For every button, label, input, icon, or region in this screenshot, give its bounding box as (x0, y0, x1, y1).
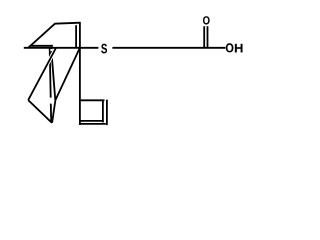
bond baseline horizontal left of S (24, 47, 99, 49)
bond vertical A lower segment (50, 104, 52, 123)
bond square inner bottom (80, 120, 103, 122)
bond square outer bottom (79, 123, 106, 125)
atom S (101, 44, 107, 54)
bond cage top edge (55, 23, 81, 24)
bond D junction to mid vertex (55, 48, 80, 100)
bond cage left slant (28, 24, 55, 48)
bond C mid vertex to bottom point (52, 100, 55, 123)
halo nick at apex junction (50, 49, 52, 51)
bond left arm to V corner (28, 49, 56, 101)
bond S to carboxyl carbon (112, 47, 225, 49)
atom H of hydroxyl (235, 44, 243, 53)
bond inner double line of bottom edge (30, 45, 53, 47)
bond square top edge (80, 99, 105, 101)
bond cage long right vertical (79, 22, 81, 125)
atom O of hydroxyl (226, 43, 234, 52)
atom O carbonyl (203, 16, 210, 24)
bond left arm halo (28, 50, 55, 100)
bond C=O double right (207, 26, 209, 47)
bond right arm of V (28, 100, 52, 123)
bond C=O double left (203, 26, 205, 47)
bond B apex to mid vertex (51, 49, 55, 101)
bond square inner right vertical (102, 100, 104, 122)
bond square outer right vertical (106, 100, 108, 125)
bond vertical A upper segment (50, 49, 51, 98)
bond inner double line of right edge (75, 25, 77, 47)
